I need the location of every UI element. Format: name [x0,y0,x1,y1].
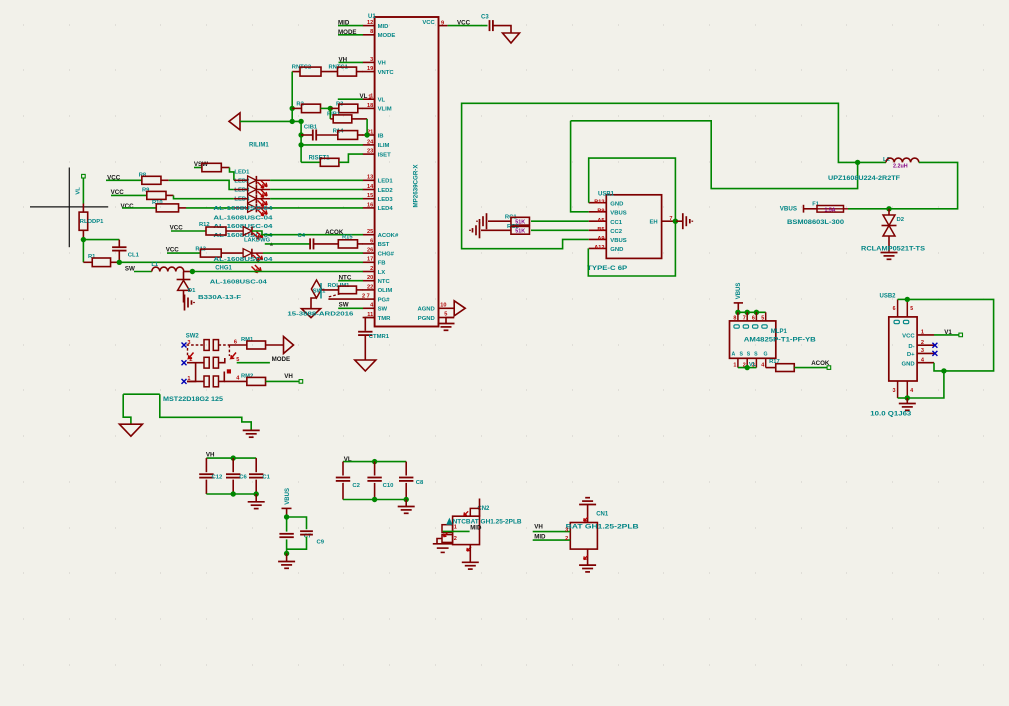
junction VBUS/D2 [886,206,891,211]
wire ILIM row [301,144,363,146]
wire BST row left [265,243,310,245]
ground at PGND [438,323,455,325]
MLP1 bottom pin stubs [737,358,739,367]
resistor RLODP1 [82,204,84,213]
wire B9 VBUS branch to junction [571,121,858,189]
svg-text:VBUS: VBUS [780,206,797,213]
svg-text:AL-1608USC-04: AL-1608USC-04 [213,216,273,222]
wire MID [338,25,363,27]
wire VH from RM2 [266,380,299,382]
svg-text:MID: MID [534,533,546,540]
svg-text:USB1: USB1 [598,191,615,197]
diode D1 [183,272,185,280]
capacitor C4 [309,238,311,249]
svg-text:3: 3 [370,57,373,63]
svg-text:CHG#: CHG# [378,251,395,257]
CN1 bottom ground [587,549,589,565]
svg-text:R8: R8 [139,172,147,178]
wire CC1 to RC1 [531,220,589,222]
svg-text:CC1: CC1 [610,220,623,226]
SW2 row2 wiring [187,362,204,364]
svg-text:UPZ1608U224-2R2TF: UPZ1608U224-2R2TF [828,176,900,182]
svg-text:6: 6 [893,306,896,312]
svg-text:S: S [740,351,744,357]
junction USB2 gnd [941,368,946,373]
wire D1 to chassis ground [183,290,185,302]
ground at D2 [881,252,898,254]
svg-text:6: 6 [370,238,373,244]
resistor R12 [171,230,206,232]
svg-text:2: 2 [454,536,457,542]
svg-text:C12: C12 [212,475,224,481]
wire L2 to VBUS node [889,162,958,208]
junction RLODP1 bottom [81,237,86,242]
wire VBUS B9 up [571,121,589,212]
svg-text:BSM08603L-300: BSM08603L-300 [787,220,845,226]
svg-text:VH: VH [534,524,543,531]
svg-text:VNTC: VNTC [378,70,395,76]
wire C3 to ground [493,26,511,33]
wire MLP1 bottom VL [738,367,757,369]
capacitor CTMR1 [365,318,374,331]
svg-text:2: 2 [565,536,568,542]
USB1 pin stubs and labels [589,202,607,204]
svg-text:LED2: LED2 [378,188,394,194]
svg-text:GND: GND [902,361,915,367]
svg-text:VCC: VCC [422,20,435,26]
IC U1 MP2639CGR-X body [375,17,439,327]
svg-text:VBUS: VBUS [736,283,742,300]
switch SW1 body [311,280,321,298]
svg-text:10.0 Q1J63: 10.0 Q1J63 [870,412,912,418]
wire USB2 bottom loop [907,371,944,398]
junction at L2 left [855,160,860,165]
RC1 to chassis ground [488,220,511,222]
svg-text:CL1: CL1 [128,252,140,258]
svg-text:12: 12 [367,20,373,26]
svg-text:2 7: 2 7 [362,294,370,300]
ground right [243,429,260,431]
svg-text:2: 2 [370,266,373,272]
svg-text:A9: A9 [597,236,604,242]
svg-text:BST: BST [378,242,390,248]
wire VH cap rail top [206,457,256,459]
ground at VBUS caps [278,561,295,563]
LED D6 LED4 [234,207,248,209]
svg-text:VH: VH [284,373,293,380]
svg-text:19: 19 [367,66,373,72]
USB2 bottom pin stubs [897,381,899,398]
capacitor C2 [342,462,344,476]
junction RILIM row at bus [290,119,295,124]
wire L1 right / junction [184,271,193,273]
wire VCC pin9 to C3 [448,25,488,27]
svg-text:GND: GND [610,247,623,253]
wire PG row [328,298,363,300]
svg-text:15-3888-ARD2016: 15-3888-ARD2016 [287,312,354,318]
svg-text:NTCBAT GH1.25-2PLB: NTCBAT GH1.25-2PLB [453,519,523,525]
capacitor C1 [255,458,257,472]
svg-text:SW: SW [125,265,135,272]
wire MODE from SW2 [237,362,270,364]
wire RNTC1 to VNTC pin [357,71,364,73]
svg-text:G: G [764,351,768,357]
svg-text:ISET: ISET [378,152,391,158]
svg-text:TYPE-C 6P: TYPE-C 6P [587,266,627,272]
USB2 top pin stubs [897,299,899,317]
svg-text:IB: IB [378,133,384,139]
junction ILIM row [298,142,303,147]
svg-text:FB: FB [378,261,386,267]
svg-text:C6: C6 [239,475,247,481]
LED D5 LED3 [234,198,248,200]
junction IB row [298,132,303,137]
svg-text:VBUS: VBUS [610,211,626,217]
svg-text:MP2639CGR-X: MP2639CGR-X [413,164,420,208]
no-connect D- [932,343,937,348]
resistor R9 [111,194,147,196]
resistor R13 [167,252,200,254]
wires LED cathodes to IC pins 13-16 [256,179,270,181]
wire CTMR1 to ground [364,336,366,360]
svg-text:VLIM: VLIM [378,107,392,113]
wire A9 VBUS long to L2 [462,103,858,248]
svg-text:2: 2 [921,340,924,346]
junction VLIM bus [290,106,295,111]
wire R9 jog to LED3 [166,194,174,196]
svg-text:VCC: VCC [457,19,471,26]
capacitor C7 [286,517,288,532]
svg-text:16: 16 [367,202,373,208]
wire to ground [286,554,288,562]
svg-text:B5: B5 [597,227,604,233]
svg-text:ACOK#: ACOK# [378,233,399,239]
wire R17 to ACOK [794,367,827,369]
svg-text:ACOK: ACOK [811,360,830,367]
svg-text:C1: C1 [262,475,270,481]
svg-text:PGND: PGND [418,316,435,322]
svg-text:10: 10 [440,302,446,308]
svg-text:D+: D+ [907,352,915,358]
svg-text:1.5A: 1.5A [825,207,836,213]
RC2 to chassis ground [481,229,511,231]
svg-text:A12: A12 [594,245,604,251]
svg-text:C10: C10 [383,483,395,489]
svg-text:26: 26 [367,248,373,254]
chassis ground at D1 [184,295,186,311]
svg-text:B9: B9 [597,208,604,214]
svg-text:AGND: AGND [417,307,434,313]
capacitor C6 [232,458,234,472]
ground triangle SW1 [302,309,321,318]
wire VL [338,98,363,100]
AGND arrow symbol [454,301,465,316]
LED D3 LED1 [234,179,248,181]
MODE output arrow [284,337,294,354]
wire LX row [192,271,363,273]
svg-text:F1: F1 [812,201,819,207]
svg-text:MODE: MODE [272,356,291,363]
svg-text:D1: D1 [188,288,196,294]
junction RILIM row right [298,119,303,124]
svg-text:CN1: CN1 [596,512,609,518]
ground CN2 bottom [469,545,471,563]
USB2 right pins [917,334,934,336]
ground at VL caps [398,506,415,508]
wire to ground [255,494,257,502]
wire RNTC2 left into bus [292,71,300,73]
wire VH cap rail bottom [206,493,256,495]
svg-text:18: 18 [367,103,373,109]
svg-text:4: 4 [761,362,764,368]
svg-text:RILIM1: RILIM1 [249,143,269,149]
wire VH [339,61,364,63]
svg-text:CTMR1: CTMR1 [369,334,390,340]
svg-text:7: 7 [669,216,672,222]
wire CN2 pin1 MID [443,530,470,532]
svg-text:LED3: LED3 [378,197,394,203]
svg-text:C2: C2 [352,483,360,489]
wire SW1 to ground [311,298,317,309]
svg-text:C9: C9 [317,539,325,545]
wire R2-R3 [321,107,331,109]
svg-text:22: 22 [367,284,373,290]
connector USB2 body [889,317,917,381]
svg-text:9: 9 [441,21,444,27]
wire to ground [405,500,407,507]
svg-text:5: 5 [444,312,447,318]
svg-text:MID: MID [470,525,482,531]
svg-text:C8: C8 [416,480,424,486]
svg-text:1: 1 [733,362,736,368]
LED D7 [226,230,243,232]
ground triangle at C3 [503,33,520,43]
wire GND pin4 down [934,363,944,371]
svg-text:VL: VL [378,98,386,104]
svg-text:AL-1608USC-04: AL-1608USC-04 [213,206,273,212]
svg-text:MLP1: MLP1 [771,329,788,335]
resistor R11 [194,167,202,169]
svg-text:B330A-13-F: B330A-13-F [198,295,242,301]
ground net below SW2 [123,393,160,395]
svg-text:17: 17 [367,257,373,263]
svg-text:SW: SW [378,307,388,313]
LED D8 [221,252,243,254]
svg-text:1: 1 [921,330,924,336]
wire VL cap rail top [343,461,406,463]
svg-text:D-: D- [908,344,914,350]
svg-text:15: 15 [367,193,373,199]
black crosshair marker [68,168,70,248]
PGND ground wire [446,318,454,324]
wire LED7 to ACOK row [252,231,363,235]
resistor ROLIM1 [322,289,339,291]
USB1 EH pin 7 [662,220,676,222]
capacitor C9 branch [287,517,307,529]
svg-text:A5: A5 [597,218,604,224]
MLP1 top pin stubs [737,312,739,321]
svg-text:4: 4 [910,388,913,394]
svg-text:OLIM: OLIM [378,288,393,294]
wire junction down to FB row [82,240,84,263]
svg-text:CHG1: CHG1 [215,265,232,271]
svg-text:13: 13 [367,175,373,181]
SW2 position arrows [189,353,194,359]
resistor R8 [106,179,142,181]
junction VBUS cap top [284,514,289,519]
svg-text:MID: MID [378,24,389,30]
svg-text:CC2: CC2 [610,229,623,235]
svg-text:3: 3 [565,527,568,533]
svg-text:ILIM: ILIM [378,143,390,149]
fuse F1 [804,208,818,210]
junction IB at pin [364,132,369,137]
svg-text:D2: D2 [897,217,905,223]
capacitor C3 [489,20,491,31]
wire R8 staircase to LED2 [161,179,169,181]
svg-text:EH: EH [650,220,658,226]
resistor R15 [314,243,339,245]
ground triangle left [119,424,142,436]
svg-text:NTC: NTC [378,279,391,285]
svg-text:51K: 51K [515,229,525,235]
wire CHG LED to pin [252,252,263,254]
svg-text:AL-1608USC-04: AL-1608USC-04 [210,279,268,285]
svg-text:VL: VL [749,362,757,368]
svg-text:LED1: LED1 [234,170,250,176]
svg-text:3: 3 [921,348,924,354]
global label arrow RILIM [229,113,240,130]
wire RNTC2-RNTC1 [321,71,337,73]
chassis ground at EH [675,220,682,222]
wire to ground [906,398,908,404]
svg-text:TMR: TMR [378,316,392,322]
svg-text:5: 5 [910,306,913,312]
svg-text:VH: VH [378,61,386,67]
TVS diode D2 [888,209,890,215]
GND loop wire B12-A12 [589,158,676,221]
CN1 top ground [587,505,589,523]
svg-text:B12: B12 [594,199,604,205]
capacitor C12 [205,458,207,472]
svg-text:C3: C3 [481,14,489,20]
capacitor C8 [405,462,407,476]
wire VCC pin1 to V1 [934,334,959,336]
IC U1 left pin stubs, numbers and names [363,25,375,27]
svg-text:USB2: USB2 [880,293,897,299]
svg-text:8: 8 [370,29,373,35]
wire F1 to junction [848,208,889,210]
transistor MLP1 body [730,321,776,358]
svg-text:V1: V1 [944,329,952,336]
wire vertical bus x=301 [300,121,302,162]
svg-text:LED1: LED1 [378,179,394,185]
wire R11 to LED1 anode (staircase) [221,167,229,169]
svg-text:VBUS: VBUS [285,488,291,505]
svg-text:S: S [747,351,751,357]
svg-text:25: 25 [367,229,373,235]
svg-text:C4: C4 [298,233,306,239]
svg-text:GND: GND [610,202,623,208]
wire NTC row [338,280,363,282]
svg-text:MODE: MODE [378,33,396,39]
CN2 red arrows [464,511,468,515]
wire VL cap rail bottom [343,499,406,501]
inductor L2 [858,161,886,163]
stray LED arrows CHG1 [252,267,258,273]
resistor R10 [122,207,156,209]
SW2 link rows 2-3 [187,363,196,382]
svg-text:PG#: PG# [378,297,391,303]
wire R10 to LED4 [179,207,187,209]
svg-text:SW2: SW2 [186,334,200,340]
wire SW row [338,307,363,309]
IC U1 right pins VCC AGND PGND [439,25,448,27]
svg-text:RLODP1: RLODP1 [80,219,104,225]
svg-text:14: 14 [367,184,374,190]
junction at R3 left [328,106,333,111]
svg-text:R10: R10 [152,200,163,206]
svg-text:AM4825P-T1-PF-YB: AM4825P-T1-PF-YB [744,338,817,344]
wire VL top with end square [82,174,86,178]
wire R3 to VLIM pin [330,107,339,109]
ground at USB2 [899,403,916,405]
connector USB1 body [606,195,661,259]
svg-text:S: S [754,351,758,357]
wire vertical bus x=292 [291,72,293,122]
wire RIB1 to IB row [366,119,368,135]
wire CC2 to RC2 [531,229,589,231]
no-connect D+ [932,351,937,356]
wire bus to R2 [292,107,301,109]
svg-text:BAT GH1.25-2PLB: BAT GH1.25-2PLB [566,524,640,530]
svg-text:24: 24 [367,139,374,145]
SW2 row1 dashed wiring [187,344,205,346]
SW2 row3 wiring [187,380,204,382]
capacitor C10 [374,462,376,476]
svg-text:VCC: VCC [121,203,135,210]
junction VBUS cap bottom [284,551,289,556]
LED D4 LED2 [234,189,248,191]
chassis ground CN2 left [437,539,442,544]
svg-text:VBUS: VBUS [610,238,626,244]
svg-text:VCC: VCC [902,334,915,340]
wire USB2 top loop [898,298,908,300]
svg-text:LED4: LED4 [378,206,394,212]
svg-text:20: 20 [367,275,373,281]
wire SW to L1 [134,271,152,273]
svg-text:23: 23 [367,149,373,155]
svg-text:LAKDWG: LAKDWG [244,238,271,244]
svg-text:MST22D18G2 125: MST22D18G2 125 [163,396,224,403]
svg-text:1: 1 [368,95,371,101]
svg-text:VL: VL [76,187,82,195]
wire MLP1 top rail [738,311,766,313]
ground triangle at CTMR1 [355,360,376,371]
wire RILIM row [240,120,301,122]
junction FB row [111,261,120,263]
capacitor CL1 [83,239,119,241]
ground at VH caps [248,501,265,503]
svg-text:2.2uH: 2.2uH [893,163,908,169]
wire MODE [338,34,363,36]
svg-text:A: A [732,351,736,357]
wire FB row [119,261,363,263]
SW1 lever dashed [329,293,342,297]
svg-text:3: 3 [893,388,896,394]
svg-text:LX: LX [378,270,386,276]
